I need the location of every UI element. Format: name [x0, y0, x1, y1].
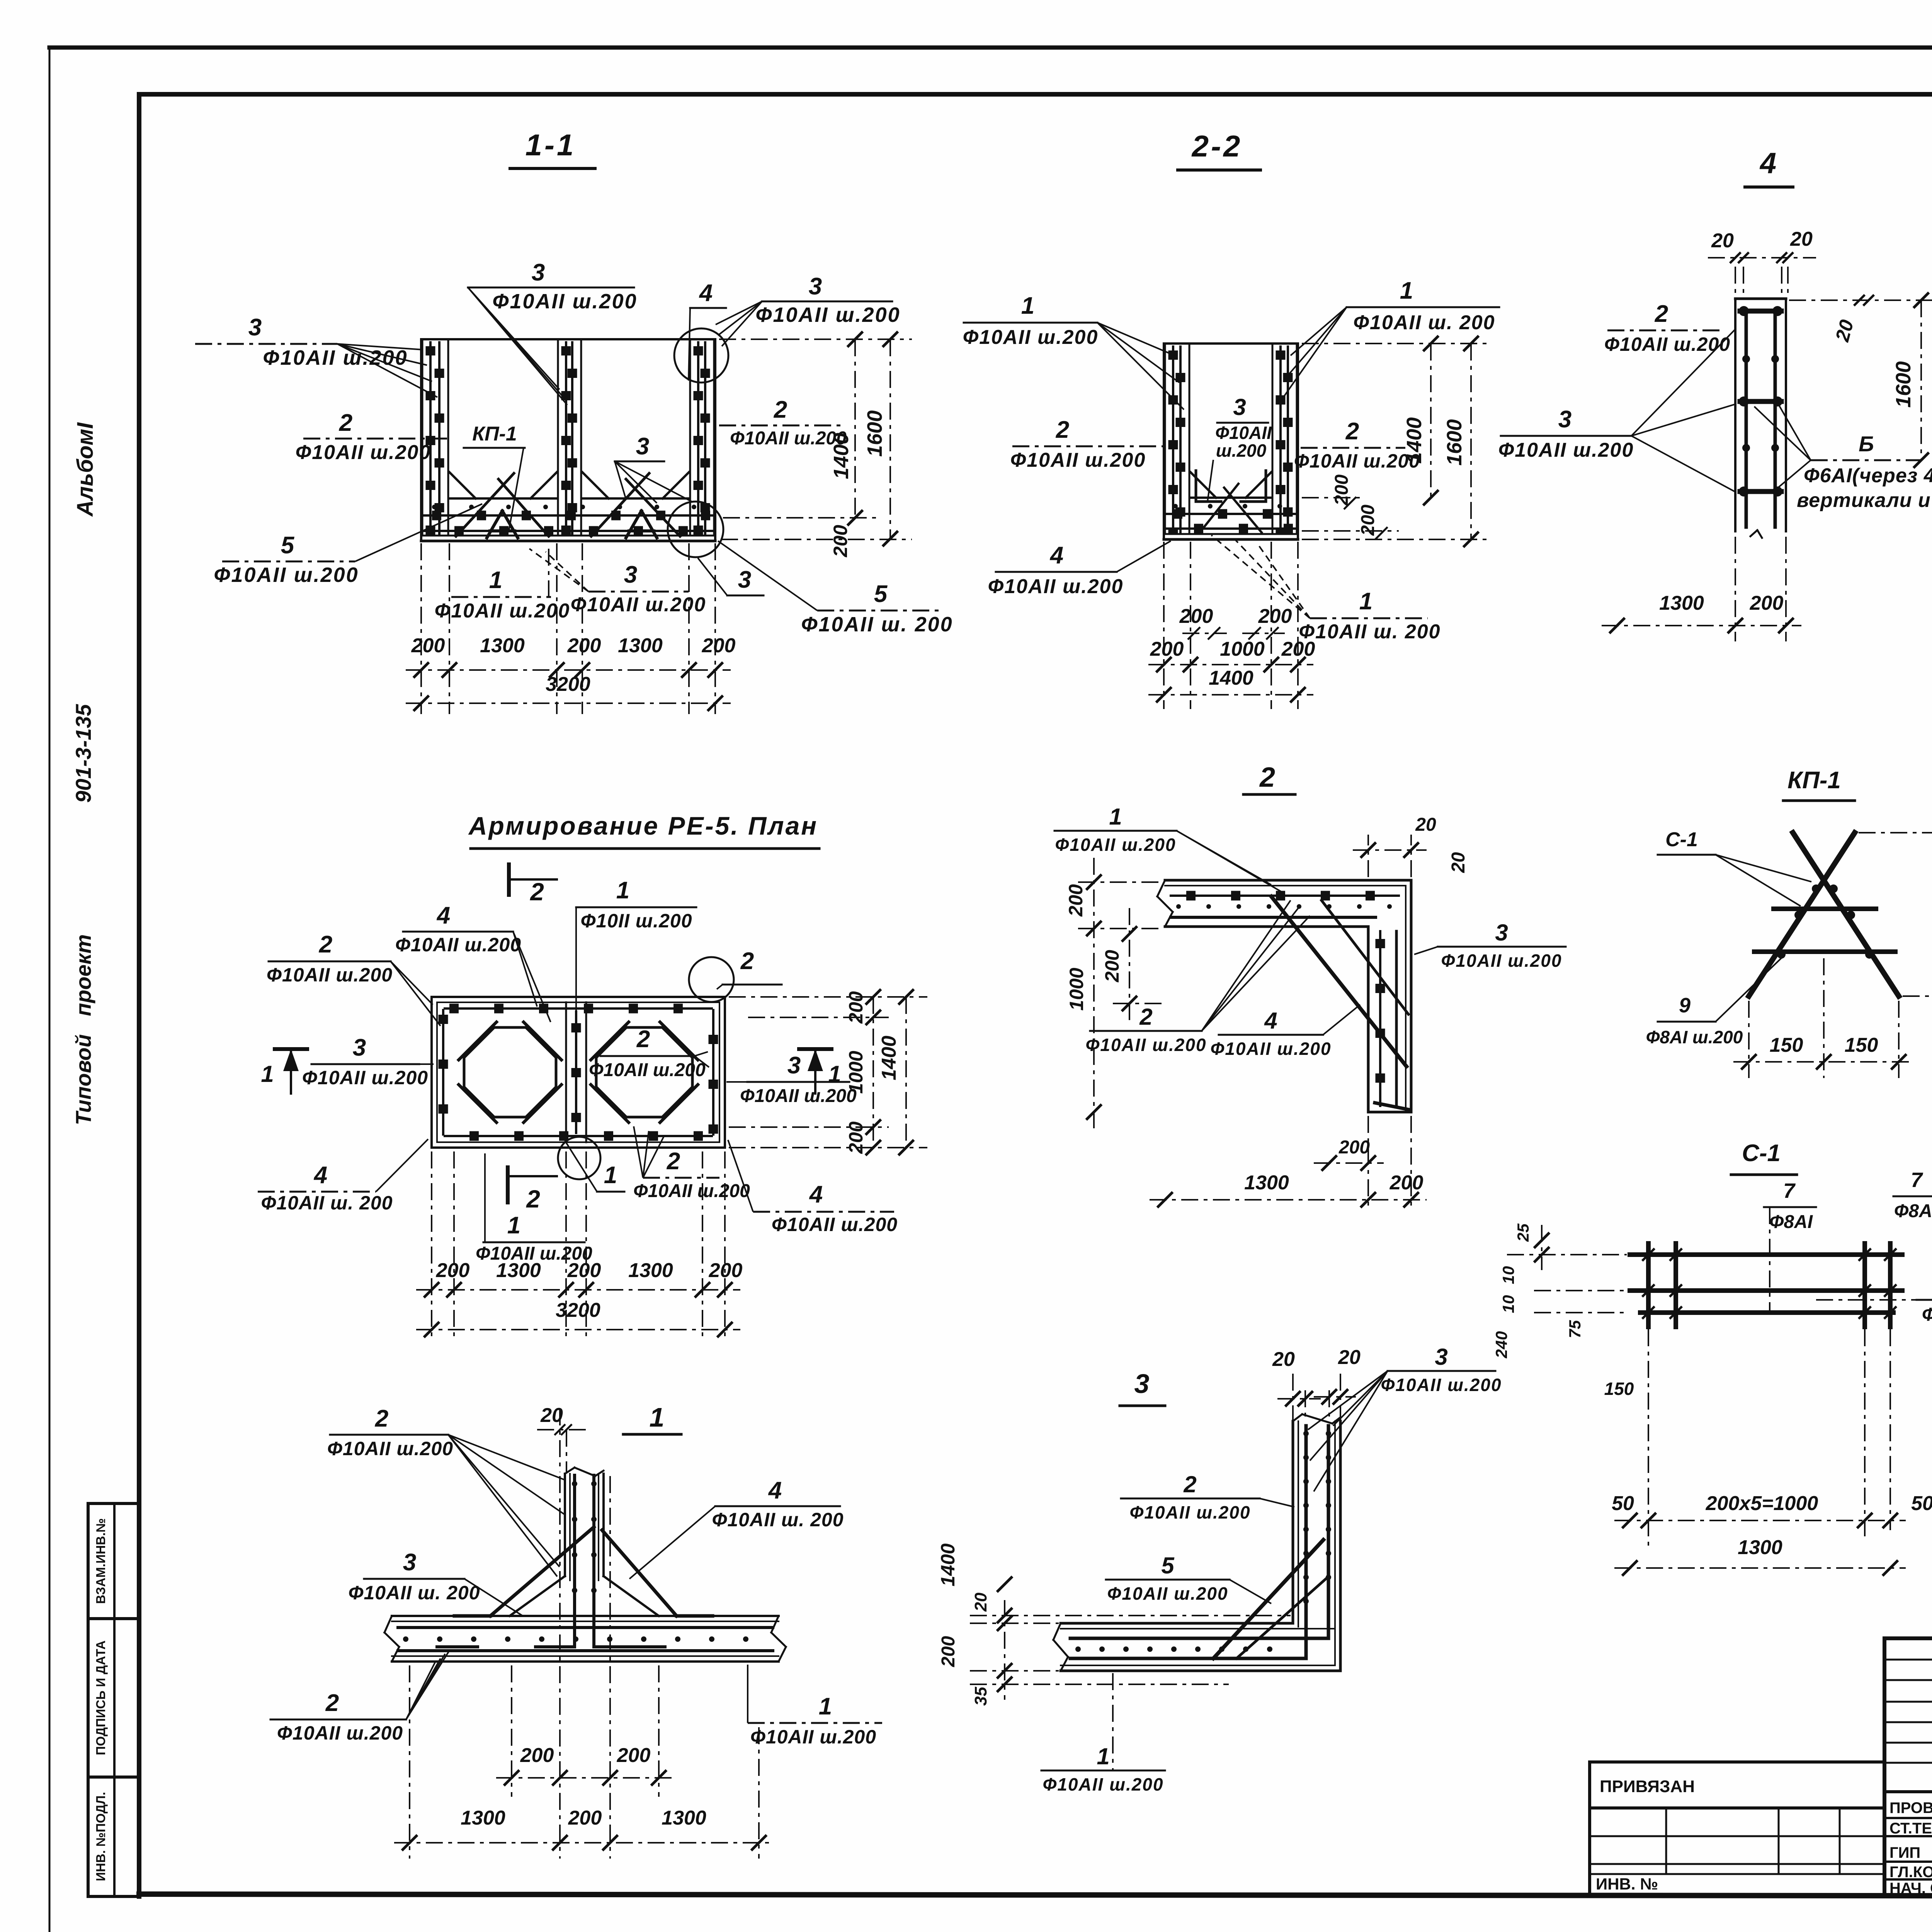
detail C-1 callout 8 mid	[1816, 1272, 1932, 1325]
detail 2 callout 4	[1210, 1005, 1360, 1059]
detail 4 cover dimension 20 20	[1708, 228, 1816, 296]
svg-text:2: 2	[667, 1148, 680, 1175]
detail 4 callout B right	[1754, 403, 1932, 512]
section 1-1 tank outline	[421, 339, 715, 541]
plan callout 2 bottom	[633, 1126, 750, 1201]
svg-text:1400: 1400	[1403, 417, 1426, 464]
section 1-1 callout 1 bottom	[435, 549, 570, 622]
svg-text:Ф10АII ш.200: Ф10АII ш.200	[296, 441, 431, 464]
svg-text:1: 1	[616, 877, 629, 904]
plan section marker 1 right	[799, 1049, 841, 1094]
svg-text:3: 3	[403, 1549, 416, 1576]
svg-text:Ф10АII ш.200: Ф10АII ш.200	[1043, 1774, 1163, 1794]
svg-text:200: 200	[411, 634, 445, 657]
svg-text:2: 2	[1259, 762, 1275, 793]
svg-text:150: 150	[1845, 1034, 1878, 1056]
svg-text:901-3-135: 901-3-135	[71, 704, 95, 803]
svg-text:Ф10АII ш.200: Ф10АII ш.200	[755, 303, 900, 327]
svg-text:Ф10АII ш.200: Ф10АII ш.200	[1381, 1375, 1502, 1395]
svg-text:Ф10АII ш.200: Ф10АII ш.200	[327, 1438, 453, 1459]
detail C-1 callout 7 right	[1893, 1168, 1932, 1279]
svg-text:вертикали и горизонтали): вертикали и горизонтали)	[1797, 489, 1932, 512]
svg-text:1300: 1300	[480, 634, 525, 657]
svg-text:1: 1	[1097, 1743, 1109, 1769]
section 2-2 callout 2 right	[1294, 418, 1420, 472]
svg-text:2: 2	[375, 1405, 388, 1432]
plan cell octagon rings	[459, 1022, 698, 1122]
svg-text:5: 5	[1161, 1553, 1175, 1578]
detail 2 callout 2 left	[1085, 900, 1310, 1055]
svg-text:200: 200	[1358, 505, 1378, 536]
svg-text:3: 3	[1435, 1344, 1447, 1370]
svg-text:1: 1	[1109, 804, 1122, 830]
svg-text:2: 2	[1139, 1004, 1152, 1030]
svg-text:10: 10	[1499, 1295, 1517, 1313]
svg-text:1400: 1400	[1209, 667, 1253, 689]
svg-text:Ф10АII ш.200: Ф10АII ш.200	[730, 428, 847, 449]
section 2-2 bottom dimensions	[1148, 542, 1315, 709]
svg-text:СТ.ТЕХНИК: СТ.ТЕХНИК	[1889, 1820, 1932, 1837]
svg-text:Ф10АII ш.200: Ф10АII ш.200	[1210, 1039, 1331, 1059]
section 2-2 left wall rebar	[1165, 344, 1189, 533]
svg-text:Ф10АII ш.200: Ф10АII ш.200	[1055, 835, 1176, 855]
svg-text:3200: 3200	[556, 1299, 600, 1321]
section 1-1 middle wall rebar	[558, 339, 581, 535]
title block staff grid	[1884, 1638, 1932, 1896]
svg-text:Ф10АII ш. 200: Ф10АII ш. 200	[712, 1509, 844, 1531]
svg-text:3: 3	[1558, 406, 1571, 433]
svg-text:Ф10АII ш.200: Ф10АII ш.200	[571, 594, 706, 616]
svg-text:3: 3	[636, 433, 649, 460]
svg-text:1400: 1400	[878, 1036, 900, 1080]
svg-text:1600: 1600	[863, 410, 886, 457]
svg-text:Ф10АII ш. 200: Ф10АII ш. 200	[1353, 311, 1495, 334]
svg-text:50: 50	[1612, 1492, 1634, 1515]
detail 1 callout 4 right	[629, 1477, 844, 1579]
plan wall rebar ladder	[443, 1009, 713, 1136]
svg-text:Ф10АII ш.200: Ф10АII ш.200	[1294, 450, 1420, 472]
detail KP-1 label C-1	[1658, 828, 1811, 906]
svg-text:С-1: С-1	[1742, 1140, 1781, 1167]
svg-text:200: 200	[702, 634, 736, 657]
svg-text:1: 1	[489, 567, 502, 594]
svg-text:200: 200	[938, 1636, 959, 1667]
svg-text:10: 10	[1499, 1266, 1517, 1284]
svg-text:Ф10АII ш.200: Ф10АII ш.200	[963, 326, 1099, 349]
svg-text:НАЧ. ОТД.: НАЧ. ОТД.	[1889, 1880, 1932, 1897]
svg-text:Ф10АII ш.200: Ф10АII ш.200	[395, 934, 521, 956]
svg-text:1300: 1300	[628, 1259, 673, 1282]
svg-text:Ф10АII ш.200: Ф10АII ш.200	[589, 1060, 706, 1080]
svg-text:7: 7	[1911, 1168, 1923, 1192]
svg-text:Ф10АII ш.200: Ф10АII ш.200	[1129, 1502, 1250, 1522]
detail 1 callout 3 left	[348, 1549, 523, 1616]
svg-text:3: 3	[1495, 920, 1508, 946]
section 2-2 slab rebar	[1167, 471, 1295, 532]
detail 1 callout 2 top left	[327, 1405, 565, 1577]
svg-text:Типовой проект: Типовой проект	[71, 934, 95, 1125]
svg-text:3: 3	[624, 561, 637, 588]
detail 3 callout 2	[1121, 1471, 1294, 1522]
detail 1 slab rebar	[398, 1628, 773, 1651]
section 1-1 detail circle bottom right	[668, 502, 723, 557]
section 2-2 title	[1178, 129, 1260, 170]
svg-text:4: 4	[1759, 147, 1776, 180]
svg-text:1300: 1300	[1244, 1172, 1289, 1194]
detail C-1 left dimensions	[1492, 1223, 1634, 1399]
plan callout 3 left	[302, 1034, 434, 1088]
svg-text:ПРИВЯЗАН: ПРИВЯЗАН	[1600, 1777, 1695, 1796]
detail 4 bottom dimension 1300 200	[1602, 537, 1801, 641]
svg-text:1000: 1000	[1066, 968, 1087, 1010]
svg-text:2: 2	[636, 1026, 650, 1053]
svg-text:1: 1	[819, 1693, 832, 1720]
detail KP-1 callout 9	[1646, 954, 1785, 1047]
section 1-1 left wall rebar	[422, 339, 448, 535]
plan title	[468, 811, 819, 849]
svg-text:50: 50	[1911, 1492, 1932, 1515]
plan callout 4 bottom right	[728, 1140, 898, 1235]
detail 2 outline	[1157, 880, 1411, 1112]
detail KP-1 dimension 190	[1859, 817, 1932, 1012]
detail 4 callout 2 left	[1604, 301, 1730, 355]
detail C-1 callout 7 mid	[1764, 1179, 1816, 1314]
svg-text:Ф8АI: Ф8АI	[1922, 1304, 1932, 1325]
left strip text Album I	[73, 422, 98, 517]
svg-text:240: 240	[1492, 1331, 1510, 1359]
svg-text:Ф8АI: Ф8АI	[1769, 1212, 1813, 1232]
detail 3 rebar	[1070, 1426, 1331, 1658]
plan bottom dimensions	[416, 1151, 742, 1341]
svg-text:ГИП: ГИП	[1889, 1844, 1920, 1861]
svg-text:Ф10II ш.200: Ф10II ш.200	[580, 910, 692, 932]
detail 2 bottom dimensions	[1150, 1116, 1427, 1209]
svg-text:200: 200	[567, 634, 601, 657]
svg-text:1000: 1000	[1220, 638, 1265, 660]
detail 2 left dimensions	[1065, 858, 1163, 1132]
left strip text Tipovoy proekt	[71, 934, 95, 1125]
section 1-1 title	[510, 128, 595, 168]
section 1-1 callout 3 top right	[716, 273, 901, 346]
section 1-1 dimension row 200 1300 200 1300 200	[406, 634, 735, 678]
detail 2 rebar	[1171, 896, 1410, 1110]
svg-text:Ф8АI ш.200: Ф8АI ш.200	[1646, 1027, 1743, 1047]
section 2-2 callout 1 bottom right	[1211, 535, 1441, 643]
section 1-1 callout 2 right	[719, 396, 847, 449]
section 1-1 right dimensions 1400 1600 200	[719, 332, 912, 558]
section 2-2 callout 3 center	[1207, 394, 1272, 502]
svg-text:2: 2	[1345, 418, 1359, 445]
detail 2 callout 3 right	[1414, 920, 1566, 971]
svg-text:200: 200	[845, 991, 867, 1024]
svg-text:2: 2	[319, 931, 332, 958]
svg-text:9: 9	[1679, 994, 1690, 1017]
svg-text:200: 200	[1258, 605, 1292, 628]
svg-text:Ф10АII ш.200: Ф10АII ш.200	[435, 600, 570, 622]
svg-text:5: 5	[281, 532, 295, 559]
svg-text:1: 1	[650, 1402, 665, 1432]
detail C-1 bottom dimensions	[1612, 1329, 1932, 1576]
svg-text:1300: 1300	[461, 1807, 505, 1829]
svg-text:2: 2	[530, 878, 544, 906]
svg-text:1300: 1300	[496, 1259, 541, 1282]
detail 2 callout 1 top left	[1054, 804, 1283, 893]
svg-text:2: 2	[1056, 417, 1069, 443]
svg-text:Ф10АII ш.200: Ф10АII ш.200	[1107, 1583, 1228, 1604]
svg-text:1600: 1600	[1443, 419, 1466, 466]
svg-text:200: 200	[1281, 638, 1315, 660]
svg-text:4: 4	[436, 902, 450, 929]
svg-text:КП-1: КП-1	[1787, 767, 1841, 794]
detail C-1 mesh bars	[1630, 1243, 1902, 1327]
detail C-1 title	[1731, 1140, 1797, 1175]
svg-text:200: 200	[567, 1259, 601, 1282]
svg-text:200: 200	[1389, 1172, 1423, 1194]
svg-text:4: 4	[699, 280, 713, 306]
svg-text:2: 2	[740, 948, 754, 975]
svg-text:2: 2	[526, 1185, 540, 1213]
svg-text:ш.200: ш.200	[1216, 440, 1267, 461]
svg-text:1300: 1300	[662, 1807, 706, 1829]
svg-text:1: 1	[261, 1061, 274, 1087]
plan section marker 2 bottom	[508, 1167, 557, 1213]
svg-text:75: 75	[1566, 1320, 1584, 1338]
svg-text:200: 200	[1150, 638, 1184, 660]
svg-text:20: 20	[1272, 1348, 1295, 1371]
plan callout 1 bottom	[476, 1153, 592, 1264]
svg-text:АльбомI: АльбомI	[73, 422, 98, 517]
svg-text:3: 3	[738, 566, 751, 593]
svg-text:200: 200	[845, 1121, 867, 1154]
title block staff names	[1889, 1798, 1932, 1897]
left strip text 901-3-135	[71, 704, 95, 803]
detail 4 wall rebar	[1739, 306, 1782, 527]
svg-text:1: 1	[1359, 588, 1372, 615]
svg-text:200: 200	[617, 1744, 651, 1767]
svg-text:4: 4	[1264, 1008, 1277, 1034]
svg-text:1-1: 1-1	[526, 128, 576, 162]
detail 1 title	[623, 1402, 681, 1434]
svg-text:Ф10АII ш.200: Ф10АII ш.200	[1441, 951, 1562, 971]
svg-text:1300: 1300	[1738, 1536, 1782, 1559]
title block left privyazan box	[1590, 1762, 1884, 1896]
section 1-1 right wall rebar	[690, 339, 714, 535]
plan callout 2 top left	[267, 931, 440, 1026]
section 2-2 callout 1 top right	[1283, 277, 1499, 398]
section 1-1 callout 3 top center	[468, 259, 638, 405]
section 1-1 callout 5 bottom left	[214, 504, 482, 587]
detail KP-1 frame	[1749, 833, 1899, 996]
section 2-2 callout 2 left	[1010, 417, 1165, 471]
svg-text:Ф10АII ш.200: Ф10АII ш.200	[750, 1726, 876, 1748]
svg-text:Ф8АI: Ф8АI	[1894, 1201, 1932, 1221]
svg-text:Ф10АII ш.200: Ф10АII ш.200	[1604, 333, 1730, 355]
detail 3 callout 5	[1106, 1553, 1271, 1604]
svg-text:Армирование РЕ-5. План: Армирование РЕ-5. План	[468, 811, 818, 840]
svg-text:2: 2	[1655, 301, 1668, 327]
svg-text:1: 1	[604, 1162, 617, 1189]
left strip stamp boxes	[88, 1503, 139, 1896]
svg-text:3: 3	[1233, 394, 1246, 420]
detail 1 diagonal bars	[437, 1527, 713, 1647]
section 2-2 right dimensions	[1302, 336, 1492, 547]
svg-text:Ф10АII ш.200: Ф10АII ш.200	[1010, 449, 1146, 471]
section 1-1 callout 3 bottom right	[698, 558, 764, 595]
svg-text:Ф10АII ш.200: Ф10АII ш.200	[302, 1067, 428, 1088]
svg-text:200: 200	[709, 1259, 743, 1282]
svg-text:200: 200	[1338, 1137, 1370, 1158]
plan detail circles	[558, 957, 734, 1179]
svg-text:200: 200	[568, 1807, 602, 1829]
svg-text:20: 20	[1790, 228, 1813, 250]
plan section marker 1 left	[261, 1049, 307, 1094]
svg-text:1400: 1400	[830, 433, 853, 479]
svg-text:4: 4	[768, 1477, 782, 1504]
svg-text:2: 2	[1183, 1471, 1196, 1497]
plan section marker 2 top	[509, 864, 557, 906]
svg-text:Ф10АII ш. 200: Ф10АII ш. 200	[261, 1192, 393, 1214]
svg-text:ВЗАМ.ИНВ.№: ВЗАМ.ИНВ.№	[94, 1518, 108, 1604]
detail KP-1 title	[1783, 767, 1855, 801]
svg-text:Ф10АII ш.200: Ф10АII ш.200	[277, 1722, 403, 1744]
detail 3 callout 3 top right	[1308, 1344, 1502, 1492]
svg-text:150: 150	[1604, 1379, 1634, 1399]
svg-text:20: 20	[1338, 1346, 1361, 1369]
detail 2 top dimension 20	[1353, 815, 1469, 877]
svg-text:7: 7	[1783, 1179, 1796, 1202]
detail 1 callout 1 bottom right	[748, 1665, 882, 1748]
section 1-1 slab rebar	[424, 473, 712, 538]
svg-text:3: 3	[809, 273, 822, 300]
detail 4 title	[1745, 147, 1793, 187]
svg-text:3: 3	[532, 259, 545, 286]
svg-text:3: 3	[353, 1034, 366, 1061]
section 1-1 callout 3 left	[195, 314, 437, 397]
svg-text:200х5=1000: 200х5=1000	[1706, 1492, 1818, 1515]
svg-text:200: 200	[830, 525, 851, 558]
detail 1 outline	[384, 1468, 786, 1662]
plan callout 2 right corner	[717, 948, 782, 989]
svg-text:Ф10АII ш.200: Ф10АII ш.200	[1085, 1035, 1206, 1055]
detail KP-1 bottom dimensions	[1733, 958, 1914, 1078]
svg-text:1: 1	[507, 1212, 520, 1239]
svg-text:35: 35	[971, 1687, 990, 1706]
svg-text:2-2: 2-2	[1191, 129, 1243, 163]
svg-text:ГЛ.КОНСТР: ГЛ.КОНСТР	[1889, 1864, 1932, 1881]
svg-text:КП-1: КП-1	[472, 423, 517, 445]
plan callout 4 bottom left	[258, 1139, 428, 1214]
svg-text:Ф10АII ш. 200: Ф10АII ш. 200	[348, 1582, 480, 1604]
section 1-1 detail circle top right	[674, 328, 728, 383]
svg-text:Ф10АII ш.200: Ф10АII ш.200	[263, 346, 408, 369]
section 2-2 tank outline	[1164, 344, 1298, 539]
svg-text:200: 200	[1179, 605, 1213, 628]
section 1-1 label KP-1	[464, 423, 525, 531]
svg-text:4: 4	[809, 1181, 823, 1208]
svg-text:Ф10АII ш. 200: Ф10АII ш. 200	[801, 613, 953, 636]
svg-text:20: 20	[1711, 230, 1734, 252]
detail 3 callout 1 bottom	[1041, 1673, 1165, 1794]
detail 3 outline	[1053, 1414, 1340, 1671]
svg-text:1: 1	[1400, 277, 1413, 304]
section 1-1 callout 3 bottom	[529, 549, 706, 616]
plan callout 3 right	[726, 1052, 857, 1106]
svg-text:Ф10АII ш.200: Ф10АII ш.200	[772, 1214, 898, 1235]
section 2-2 callout 4 bottom left	[988, 541, 1171, 598]
svg-text:2: 2	[774, 396, 787, 423]
svg-text:20: 20	[1448, 852, 1469, 873]
svg-text:Ф10АII ш.200: Ф10АII ш.200	[988, 575, 1124, 598]
detail 1 top dimension 20	[537, 1404, 587, 1472]
section 1-1 dimension 3200	[406, 673, 731, 711]
plan callout 4 top	[395, 902, 551, 1022]
detail 3 title	[1120, 1369, 1165, 1406]
detail 1 wall rebar	[536, 1475, 633, 1647]
svg-text:200: 200	[1750, 592, 1784, 614]
svg-text:4: 4	[1049, 542, 1063, 569]
detail 1 bottom dimensions	[394, 1476, 774, 1859]
svg-text:200: 200	[436, 1259, 470, 1282]
svg-text:25: 25	[1514, 1223, 1532, 1242]
plan callout 2 inside	[589, 1026, 709, 1080]
svg-text:1: 1	[1021, 293, 1034, 319]
svg-text:С-1: С-1	[1665, 828, 1698, 851]
svg-text:1000: 1000	[845, 1051, 867, 1094]
svg-text:200: 200	[1332, 474, 1352, 506]
section 2-2 callout 1 top left	[963, 293, 1184, 410]
svg-text:ИНВ. №: ИНВ. №	[1596, 1875, 1658, 1893]
svg-text:Ф10АII ш.200: Ф10АII ш.200	[740, 1086, 857, 1106]
detail 3 top dimensions 20 20	[1272, 1346, 1361, 1422]
section 1-1 callout 2 left	[296, 410, 450, 464]
plan callout 1 small	[565, 1141, 624, 1192]
svg-text:3: 3	[787, 1052, 801, 1079]
detail 4 callout 3 left	[1498, 329, 1735, 492]
detail 4 wall outline	[1735, 299, 1786, 538]
svg-text:200: 200	[520, 1744, 554, 1767]
svg-text:5: 5	[874, 581, 888, 607]
svg-text:1300: 1300	[1659, 592, 1704, 614]
svg-text:ИНВ. №ПОДЛ.: ИНВ. №ПОДЛ.	[94, 1792, 108, 1881]
plan right dimensions	[729, 989, 927, 1155]
section 1-1 callout 5 far right	[718, 541, 953, 636]
section 1-1 callout 4 top	[689, 280, 726, 381]
svg-text:Ф10АII ш.200: Ф10АII ш.200	[267, 964, 393, 986]
detail 4 right dimension 1600 and 20	[1789, 293, 1932, 468]
section 1-1 callout 3 mid	[615, 433, 692, 503]
svg-text:Ф10АII ш.200: Ф10АII ш.200	[214, 563, 359, 587]
svg-text:4: 4	[313, 1162, 327, 1189]
svg-text:2: 2	[325, 1690, 339, 1716]
detail 1 callout 2 bottom left	[270, 1650, 450, 1744]
svg-text:20: 20	[971, 1592, 990, 1612]
svg-text:Ф10АII: Ф10АII	[1215, 423, 1272, 443]
svg-text:2: 2	[339, 410, 352, 436]
svg-text:1: 1	[828, 1061, 841, 1087]
svg-text:150: 150	[1770, 1034, 1803, 1056]
svg-text:Ф6АI(через 400 по: Ф6АI(через 400 по	[1804, 464, 1932, 487]
section 2-2 right wall rebar	[1272, 344, 1297, 533]
section 1-1 bottom dimension extension lines	[421, 543, 715, 714]
svg-text:ПОДПИСЬ И ДАТА: ПОДПИСЬ И ДАТА	[94, 1640, 108, 1755]
svg-text:200: 200	[1065, 884, 1087, 917]
svg-text:1400: 1400	[937, 1543, 959, 1586]
svg-text:3200: 3200	[546, 673, 590, 696]
svg-text:Б: Б	[1859, 432, 1874, 456]
detail 3 left dimensions	[937, 1543, 1291, 1706]
svg-text:ПРОВЕРИЛ: ПРОВЕРИЛ	[1889, 1799, 1932, 1816]
plan callout 1 top	[576, 877, 696, 1016]
